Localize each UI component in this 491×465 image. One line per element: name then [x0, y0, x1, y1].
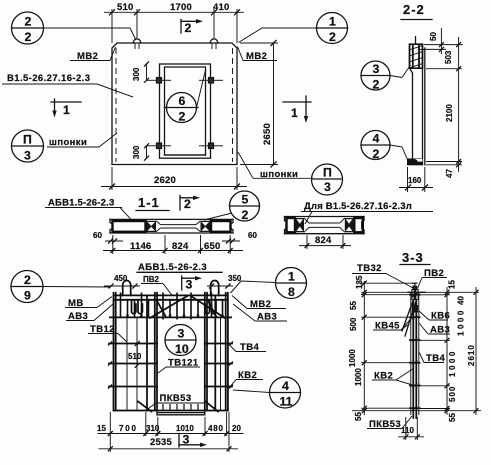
svg-text:40: 40 [457, 296, 466, 305]
svg-text:824: 824 [172, 241, 189, 252]
svg-text:шпонки: шпонки [49, 137, 87, 148]
svg-text:55: 55 [349, 301, 358, 310]
circle 3/2 [361, 61, 390, 90]
MESH [11, 262, 307, 452]
svg-text:2: 2 [373, 147, 380, 161]
svg-text:6: 6 [179, 94, 186, 108]
svg-text:1: 1 [288, 270, 295, 284]
opening reveal lines [161, 224, 197, 226]
circle 1/8 [276, 268, 307, 299]
circle 2/9 [11, 271, 43, 303]
mesh edge bars right [225, 293, 227, 411]
section marker 1 right [283, 101, 311, 103]
band outline [285, 216, 365, 218]
right reveal chamfer [196, 221, 201, 225]
left key end [110, 219, 112, 233]
position circle 1/2 [317, 13, 348, 44]
right frame block with X [201, 221, 211, 232]
top dim line [104, 11, 244, 13]
svg-text:2: 2 [185, 21, 192, 35]
TV32 stub [414, 283, 416, 292]
svg-text:510: 510 [128, 352, 142, 361]
svg-text:15: 15 [97, 424, 106, 433]
svg-text:500: 500 [349, 317, 358, 331]
dim 110 bottom [405, 417, 407, 440]
strip bars [109, 343, 157, 345]
svg-text:ТВ32: ТВ32 [357, 263, 382, 274]
svg-text:4: 4 [282, 379, 289, 393]
opening edge bars left [154, 293, 156, 411]
svg-text:9: 9 [24, 289, 31, 303]
dim 350 [207, 285, 233, 287]
column left edge with step [410, 44, 413, 160]
dim 824 detail [306, 235, 308, 249]
reveal lines [309, 222, 340, 224]
svg-text:20: 20 [232, 424, 241, 433]
main chain 1-1 [112, 235, 114, 254]
bottom chain 2 [99, 448, 239, 450]
band outline [110, 218, 233, 220]
svg-text:3: 3 [186, 278, 193, 292]
embed plate bottom-right [209, 143, 214, 149]
top strip stirrups [121, 293, 223, 320]
svg-text:1000: 1000 [448, 349, 457, 377]
svg-text:2535: 2535 [150, 437, 172, 448]
right chain 2 overall [475, 287, 477, 415]
svg-text:Для В1.5-26.27.16-2.3л: Для В1.5-26.27.16-2.3л [304, 201, 412, 212]
svg-text:510: 510 [117, 2, 133, 13]
svg-text:410: 410 [213, 2, 229, 13]
svg-text:2: 2 [24, 273, 31, 287]
left key end [285, 217, 287, 234]
SECTION 3-3 [348, 250, 481, 440]
svg-text:1: 1 [291, 106, 298, 120]
door opening outer frame [160, 64, 211, 158]
dim 2650 right [240, 42, 278, 44]
svg-text:5: 5 [242, 193, 249, 207]
door opening inner frame [165, 67, 206, 155]
svg-text:55: 55 [448, 413, 457, 422]
svg-text:2: 2 [179, 110, 186, 124]
svg-text:3: 3 [183, 433, 190, 447]
section marker 3 top [181, 276, 183, 290]
door frame bottom line [165, 154, 206, 156]
position circle 2/2 [12, 12, 44, 44]
thin verticals [126, 317, 128, 410]
svg-text:1146: 1146 [130, 241, 151, 252]
svg-text:300: 300 [132, 145, 141, 159]
svg-text:2: 2 [242, 208, 249, 222]
svg-text:2650: 2650 [262, 123, 273, 145]
right X block [345, 218, 354, 232]
stirrup bottom blobs [126, 315, 223, 318]
opening edge bars right [204, 293, 206, 411]
diagonal leader in opening [197, 70, 206, 108]
svg-text:824: 824 [315, 235, 332, 246]
svg-text:47: 47 [445, 169, 454, 178]
svg-text:2: 2 [25, 30, 32, 44]
PKV53 frame below opening [156, 411, 158, 415]
right chamfer [340, 218, 345, 223]
left frame block with X [147, 221, 157, 232]
circle 3/10 [165, 325, 196, 356]
circle 4/2 [361, 131, 390, 160]
svg-text:1000: 1000 [457, 308, 466, 336]
svg-text:110: 110 [401, 426, 414, 435]
svg-text:503: 503 [444, 50, 453, 64]
svg-text:700: 700 [119, 424, 138, 433]
svg-text:60: 60 [93, 231, 102, 240]
embed plate bottom-left [157, 143, 162, 149]
svg-text:60: 60 [248, 231, 257, 240]
svg-text:2: 2 [329, 30, 336, 44]
svg-text:1000: 1000 [354, 368, 363, 386]
svg-text:3: 3 [373, 62, 380, 76]
left X block [296, 218, 305, 232]
lifting loop left mesh [123, 281, 131, 296]
dim 160 bottom [407, 167, 409, 192]
svg-text:2620: 2620 [154, 175, 176, 186]
section marker 1 left [51, 101, 81, 103]
section marker 2 mid [179, 196, 181, 211]
dim 60 left [105, 240, 123, 242]
svg-text:3: 3 [24, 149, 31, 163]
tie marks [410, 294, 420, 296]
svg-text:15: 15 [448, 280, 457, 289]
vertical dim chain 2-2 [458, 37, 460, 172]
circle 5/2 [230, 191, 260, 221]
column edges [410, 292, 412, 415]
svg-text:2-2: 2-2 [403, 2, 425, 17]
bottom block [408, 159, 423, 165]
svg-text:П: П [323, 166, 332, 180]
lifting loop right [210, 39, 218, 43]
right extension lines [420, 291, 479, 293]
embed plate top-left [157, 78, 162, 84]
mesh edge bars left [113, 293, 115, 411]
svg-text:2: 2 [184, 197, 191, 211]
position circle II/3 right [312, 164, 343, 195]
horizontal bar full top of opening [109, 316, 232, 318]
top anchor zone [411, 289, 418, 300]
SECTION 2-2 [361, 2, 463, 192]
left reveal chamfer [156, 221, 161, 225]
svg-text:135: 135 [355, 275, 364, 289]
left chamfer [304, 218, 309, 223]
svg-text:ПВ2: ПВ2 [143, 275, 160, 284]
dashed key line right [232, 48, 234, 162]
DETAIL 824 [285, 201, 434, 249]
svg-text:В1.5-26.27.16-2.3: В1.5-26.27.16-2.3 [7, 73, 90, 84]
svg-text:2: 2 [25, 15, 32, 29]
lifting loop right mesh [211, 281, 219, 296]
svg-text:3-3: 3-3 [402, 250, 424, 265]
right chain 1 [446, 287, 448, 415]
bottom long extension [352, 410, 481, 412]
bottom hooks in opening [162, 404, 164, 411]
dim 450 [104, 285, 140, 287]
svg-text:50: 50 [429, 32, 438, 41]
svg-text:310: 310 [146, 424, 160, 433]
dashed key line left [115, 48, 117, 162]
left solid block [113, 221, 146, 232]
svg-text:3: 3 [178, 327, 185, 341]
svg-text:2100: 2100 [445, 104, 454, 122]
dim 300 top [146, 64, 148, 80]
svg-text:АБВ1.5-26-2.3: АБВ1.5-26-2.3 [48, 198, 114, 209]
svg-text:11: 11 [280, 395, 293, 409]
svg-text:3: 3 [324, 180, 331, 194]
svg-text:1: 1 [63, 103, 70, 117]
bottom chain 1 [98, 433, 244, 435]
top anchor block hatched [410, 44, 423, 68]
KV45 bent bars [402, 300, 413, 331]
mesh inner bar left [146, 295, 148, 410]
embed plate top-right [209, 78, 214, 84]
svg-text:500: 500 [448, 386, 457, 402]
SECTION 1-1 [45, 191, 260, 254]
extension lines right [424, 44, 463, 46]
loop stub top [415, 37, 417, 45]
left solid block [287, 218, 296, 232]
svg-text:650: 650 [204, 241, 220, 252]
svg-text:300: 300 [132, 67, 141, 81]
svg-text:450: 450 [114, 274, 128, 283]
PLAN VIEW [2, 2, 348, 195]
svg-text:1: 1 [329, 15, 336, 29]
svg-text:1000: 1000 [348, 349, 357, 367]
svg-text:8: 8 [288, 285, 295, 299]
svg-text:1-1: 1-1 [138, 195, 160, 210]
svg-text:2: 2 [373, 78, 380, 92]
lifting loop left [133, 39, 141, 43]
svg-text:1700: 1700 [170, 2, 192, 13]
top chord double [113, 294, 228, 296]
section marker 2 top [180, 20, 182, 34]
circle 4/11 [270, 377, 301, 408]
dim 2620 [111, 167, 113, 190]
right solid block [354, 218, 363, 232]
dim 300 bottom [146, 146, 148, 158]
dim 60 right [222, 240, 240, 242]
mesh inner bar right [214, 295, 216, 410]
dim 510 [136, 344, 138, 366]
bottom chord [114, 410, 228, 412]
position circle 6/2 in opening [167, 93, 197, 123]
svg-text:4: 4 [373, 132, 380, 146]
right key end [231, 219, 233, 233]
section marker 3 bottom [178, 434, 180, 448]
svg-text:ПКВ53: ПКВ53 [160, 393, 192, 404]
bottom dim extensions [109, 412, 111, 452]
position circle II/3 left [12, 130, 44, 162]
right solid block [211, 221, 231, 232]
dim line 50 [440, 28, 442, 54]
svg-text:55: 55 [354, 412, 363, 421]
top plate [408, 291, 425, 293]
svg-text:480: 480 [208, 424, 224, 433]
diagonal bars [150, 296, 188, 318]
right key end [362, 217, 364, 234]
left chain [363, 281, 365, 415]
svg-text:10: 10 [175, 342, 189, 356]
svg-text:П: П [23, 133, 32, 147]
column bars [412, 287, 414, 419]
bar end ticks left [108, 342, 112, 346]
svg-text:АБВ1.5-26-2.3: АБВ1.5-26-2.3 [138, 262, 207, 273]
left extension lines [358, 282, 413, 284]
column right double edge [422, 44, 424, 165]
svg-text:160: 160 [408, 176, 422, 185]
panel outline [112, 43, 237, 165]
svg-text:2610: 2610 [467, 344, 476, 366]
